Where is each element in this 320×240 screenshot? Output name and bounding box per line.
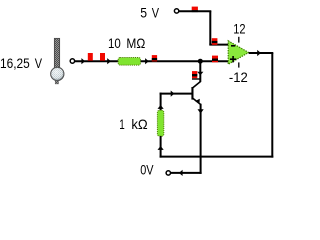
wire: into op-amp minus input <box>209 44 228 46</box>
arrow band under block C <box>192 10 198 12</box>
red handle block F at collector <box>192 71 197 78</box>
current arrow before resistor R1 <box>107 58 111 64</box>
wire: op-amp output horizontal <box>249 52 274 54</box>
voltage probe P1 tip stub <box>55 81 58 84</box>
voltage probe P1 ball <box>51 67 64 80</box>
svg-text:12: 12 <box>233 20 245 36</box>
wire: base wire corner vertical to resistor R2 <box>160 93 162 111</box>
red handle block C on 5V wire <box>192 7 198 11</box>
op-amp U1 minus input sign <box>231 45 235 47</box>
terminal input (open circle) <box>70 59 74 63</box>
current arrow on 0V wire <box>179 170 183 176</box>
red handle block 1 <box>88 53 93 61</box>
wire: output vertical down right side <box>271 53 273 158</box>
current arrow below resistor R2 <box>158 146 164 150</box>
wire: input terminal to op-amp + input (node IN) <box>75 60 229 62</box>
current arrow on emitter wire <box>198 109 204 113</box>
current arrow after resistor R1 <box>145 58 149 64</box>
svg-text:-12: -12 <box>229 69 248 85</box>
op-amp U1 negative supply pin tick <box>238 62 240 67</box>
wire: resistor R2 bottom to rail <box>160 136 162 158</box>
terminal 5V (open circle) <box>174 9 178 13</box>
arrow band under block D <box>212 41 218 43</box>
transistor Q1 emitter arrowhead <box>195 99 200 104</box>
stub line under block F <box>192 78 201 80</box>
current arrow on input wire <box>81 58 85 64</box>
wire: junction down to transistor collector <box>199 61 201 82</box>
svg-text:1kΩ: 1kΩ <box>119 116 147 132</box>
wire: emitter vertical down <box>200 104 202 174</box>
wire: 5V terminal horizontal <box>179 10 211 12</box>
arrow band under block B <box>152 58 157 60</box>
op-amp U1 positive supply pin tick <box>238 37 240 43</box>
junction node at main wire / collector <box>198 59 203 64</box>
current arrow above resistor R2 <box>158 105 164 109</box>
op-amp U1 body <box>228 41 248 65</box>
svg-text:0V: 0V <box>140 162 154 178</box>
arrow band under block E <box>212 59 218 61</box>
svg-text:10MΩ: 10MΩ <box>108 35 145 51</box>
svg-text:16,25V: 16,25V <box>0 55 43 71</box>
red handle block B on main wire <box>152 55 157 61</box>
transistor Q1 collector diagonal <box>193 81 201 88</box>
svg-text:5V: 5V <box>140 4 159 20</box>
red handle block D at minus input <box>212 38 218 45</box>
op-amp U1 plus input sign <box>230 58 236 60</box>
transistor Q1 emitter diagonal <box>193 98 201 104</box>
current arrow on output <box>257 50 261 56</box>
terminal 0V (open circle) <box>166 171 170 175</box>
wire: 0V terminal to emitter vertical <box>171 172 202 174</box>
red handle block 2 <box>100 53 105 61</box>
transistor Q1 base bar <box>191 87 193 100</box>
current arrow on collector wire <box>197 72 203 76</box>
resistor R2 1 kΩ body <box>157 110 163 136</box>
voltage probe P1 bar <box>54 38 59 69</box>
wire: base wire horizontal <box>160 93 192 95</box>
wire: 5V vertical down <box>209 11 211 44</box>
current arrow on base wire <box>171 91 175 97</box>
red handle block E at plus input <box>212 56 218 63</box>
resistor R1 10 MΩ body <box>118 58 140 66</box>
wire: bottom rail <box>160 156 274 158</box>
arrow band under block F <box>192 74 197 76</box>
